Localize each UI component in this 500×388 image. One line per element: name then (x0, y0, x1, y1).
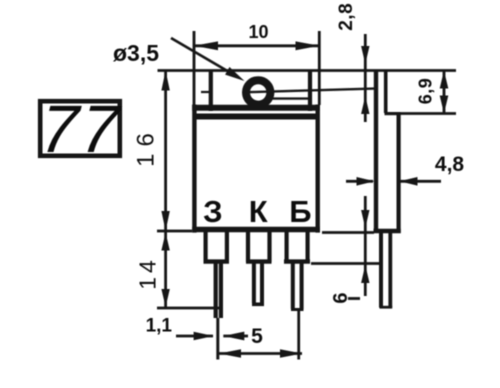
svg-text:ø3,5: ø3,5 (113, 40, 159, 66)
marking box frame 77 (40, 101, 120, 156)
dimension 6 end tick (348, 297, 360, 300)
lead 1 extension line (216, 318, 219, 360)
side view: step line (385, 112, 401, 115)
extension line: tab top edge (shared by dim 16, 10 area, 6,9) (158, 69, 457, 72)
svg-text:1,1: 1,1 (146, 316, 173, 337)
dimension 16 line (164, 71, 167, 232)
front body inner top line (194, 114, 317, 120)
lead 3 narrow part (291, 261, 295, 309)
svg-text:16: 16 (133, 126, 160, 167)
dimension 6 line and arrows (364, 196, 367, 296)
lead 3 wide part (285, 232, 289, 262)
lead 1 wide part (204, 232, 208, 262)
dimension 1,1 arrows (176, 335, 213, 338)
front body bottom edge (192, 227, 320, 233)
extension line for 6,9 bottom (395, 112, 456, 115)
svg-text:77: 77 (38, 92, 124, 167)
front body top edge (192, 105, 320, 111)
mounting hole ring (246, 80, 270, 104)
side view: tab right edge (384, 70, 388, 114)
front body left edge (192, 105, 196, 233)
svg-text:З: З (203, 194, 222, 229)
dimension 2,8 line and arrows (364, 34, 367, 122)
dimension 10 extension lines (193, 31, 196, 105)
side view: left long edge (374, 70, 378, 234)
dimension 10 line (194, 44, 320, 47)
hole center line (201, 91, 212, 93)
lead 1 narrow part (214, 261, 218, 318)
svg-text:5: 5 (251, 325, 263, 348)
dimension 6,9 line (443, 71, 446, 114)
marking text 77 (38, 92, 124, 167)
svg-text:6,9: 6,9 (416, 78, 436, 105)
lead 2 wide part (246, 232, 250, 262)
svg-text:4,8: 4,8 (435, 153, 465, 176)
dimension 14 line (164, 231, 167, 308)
front view: tab right edge (308, 70, 312, 112)
svg-text:К: К (249, 194, 268, 229)
svg-text:2,8: 2,8 (336, 3, 357, 31)
svg-text:14: 14 (135, 256, 161, 290)
side view: body bottom (374, 229, 401, 234)
extension line body bottom left (157, 230, 192, 233)
side view: body right edge (397, 112, 401, 233)
dimension row B line (lead pitch) (219, 352, 302, 355)
side view lead (379, 233, 383, 308)
leader line for hole diameter (171, 38, 230, 73)
svg-text:Б: Б (289, 194, 311, 229)
lead 3 extension line (297, 309, 300, 360)
front view: tab left edge (209, 70, 213, 112)
dimension 4,8 arrows (346, 180, 373, 183)
svg-text:10: 10 (248, 22, 268, 42)
extension line body bottom (between views) (322, 231, 374, 234)
extension line lead step (between views) (311, 262, 379, 265)
front body right edge (316, 105, 320, 233)
extension line lead end (157, 307, 222, 310)
lead 2 narrow part (252, 261, 256, 303)
hole lower line to tab right edge (272, 97, 309, 99)
